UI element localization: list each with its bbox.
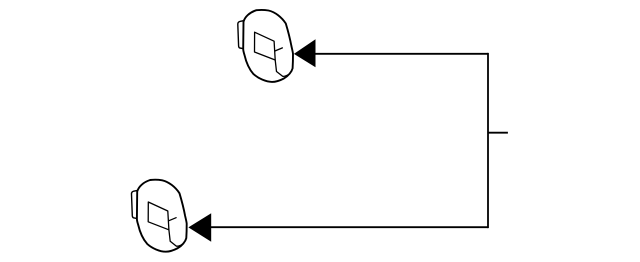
- leader line from top arrow to bracket: [315, 53, 488, 55]
- leader line from bottom arrow to bracket: [211, 226, 488, 228]
- arrow to bottom clip: [188, 213, 211, 242]
- arrow to top clip: [294, 39, 316, 67]
- clip part (bottom): [131, 180, 186, 252]
- bracket tick mark: [488, 132, 508, 134]
- bracket vertical line: [487, 53, 489, 228]
- clip part (top): [238, 10, 293, 82]
